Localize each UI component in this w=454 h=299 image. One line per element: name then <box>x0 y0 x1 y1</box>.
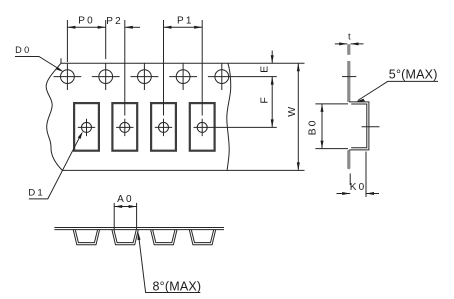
extension line hole-5 centerline <box>236 76 277 78</box>
pocket PK2 <box>112 103 137 151</box>
leader 8 deg max <box>138 232 201 293</box>
leader D1 <box>29 131 83 199</box>
leader 5 deg max <box>356 81 438 102</box>
pocket PK1 <box>74 103 99 151</box>
svg-text:D1: D1 <box>28 188 45 199</box>
dimension E <box>271 51 274 64</box>
extension line pocket-4 centerline <box>211 126 277 128</box>
svg-text:D0: D0 <box>15 45 32 55</box>
K0 extension line right <box>365 152 367 198</box>
dimension P1 <box>164 20 203 116</box>
carrier bar lower <box>347 150 350 169</box>
svg-text:t: t <box>348 31 351 42</box>
pocket section centerline horizontal <box>362 126 380 128</box>
svg-text:P0: P0 <box>78 16 95 27</box>
pocket T1 <box>73 230 99 245</box>
pocket section outline outer <box>349 102 369 150</box>
pocket PK4 <box>190 103 215 151</box>
svg-text:B0: B0 <box>306 119 318 136</box>
pocket T3 <box>151 230 177 245</box>
pocket T2 <box>112 230 138 245</box>
sprocket hole S5 <box>208 63 236 90</box>
sprocket hole tick (section) <box>342 76 356 78</box>
svg-text:8°(MAX): 8°(MAX) <box>153 279 202 293</box>
dimension t <box>335 42 364 45</box>
tape left torn edge <box>46 58 62 170</box>
svg-text:A0: A0 <box>117 194 134 205</box>
pocket section outline inner <box>351 104 367 148</box>
dimension B0 <box>315 104 348 149</box>
svg-text:P2: P2 <box>106 16 123 27</box>
pocket T4 <box>189 230 215 245</box>
tape bottom edge <box>62 169 304 171</box>
svg-text:K0: K0 <box>350 182 367 193</box>
dimension A0 <box>114 203 136 230</box>
dimension F <box>271 77 274 128</box>
svg-text:F: F <box>259 97 271 103</box>
svg-text:P1: P1 <box>177 16 194 27</box>
dimension W <box>297 63 300 170</box>
svg-text:W: W <box>286 107 298 117</box>
K0 extension line left <box>349 174 351 186</box>
sprocket hole S2 <box>92 63 120 90</box>
sprocket hole S4 <box>169 63 197 90</box>
svg-text:5°(MAX): 5°(MAX) <box>389 67 438 81</box>
dimension P2 <box>125 20 140 116</box>
sprocket hole S1 <box>54 63 82 90</box>
dimension K0 <box>337 192 380 195</box>
tape side line upper <box>54 227 224 229</box>
tape side line lower <box>54 229 224 231</box>
sprocket hole S3 <box>131 63 159 90</box>
tape top edge <box>61 62 305 64</box>
carrier bar upper (tape cross-section) <box>347 44 350 55</box>
pocket PK3 <box>151 103 176 151</box>
dimension P0 <box>67 20 105 62</box>
tape right torn edge <box>227 63 231 170</box>
leader D0 <box>15 57 64 73</box>
svg-text:E: E <box>259 66 271 73</box>
